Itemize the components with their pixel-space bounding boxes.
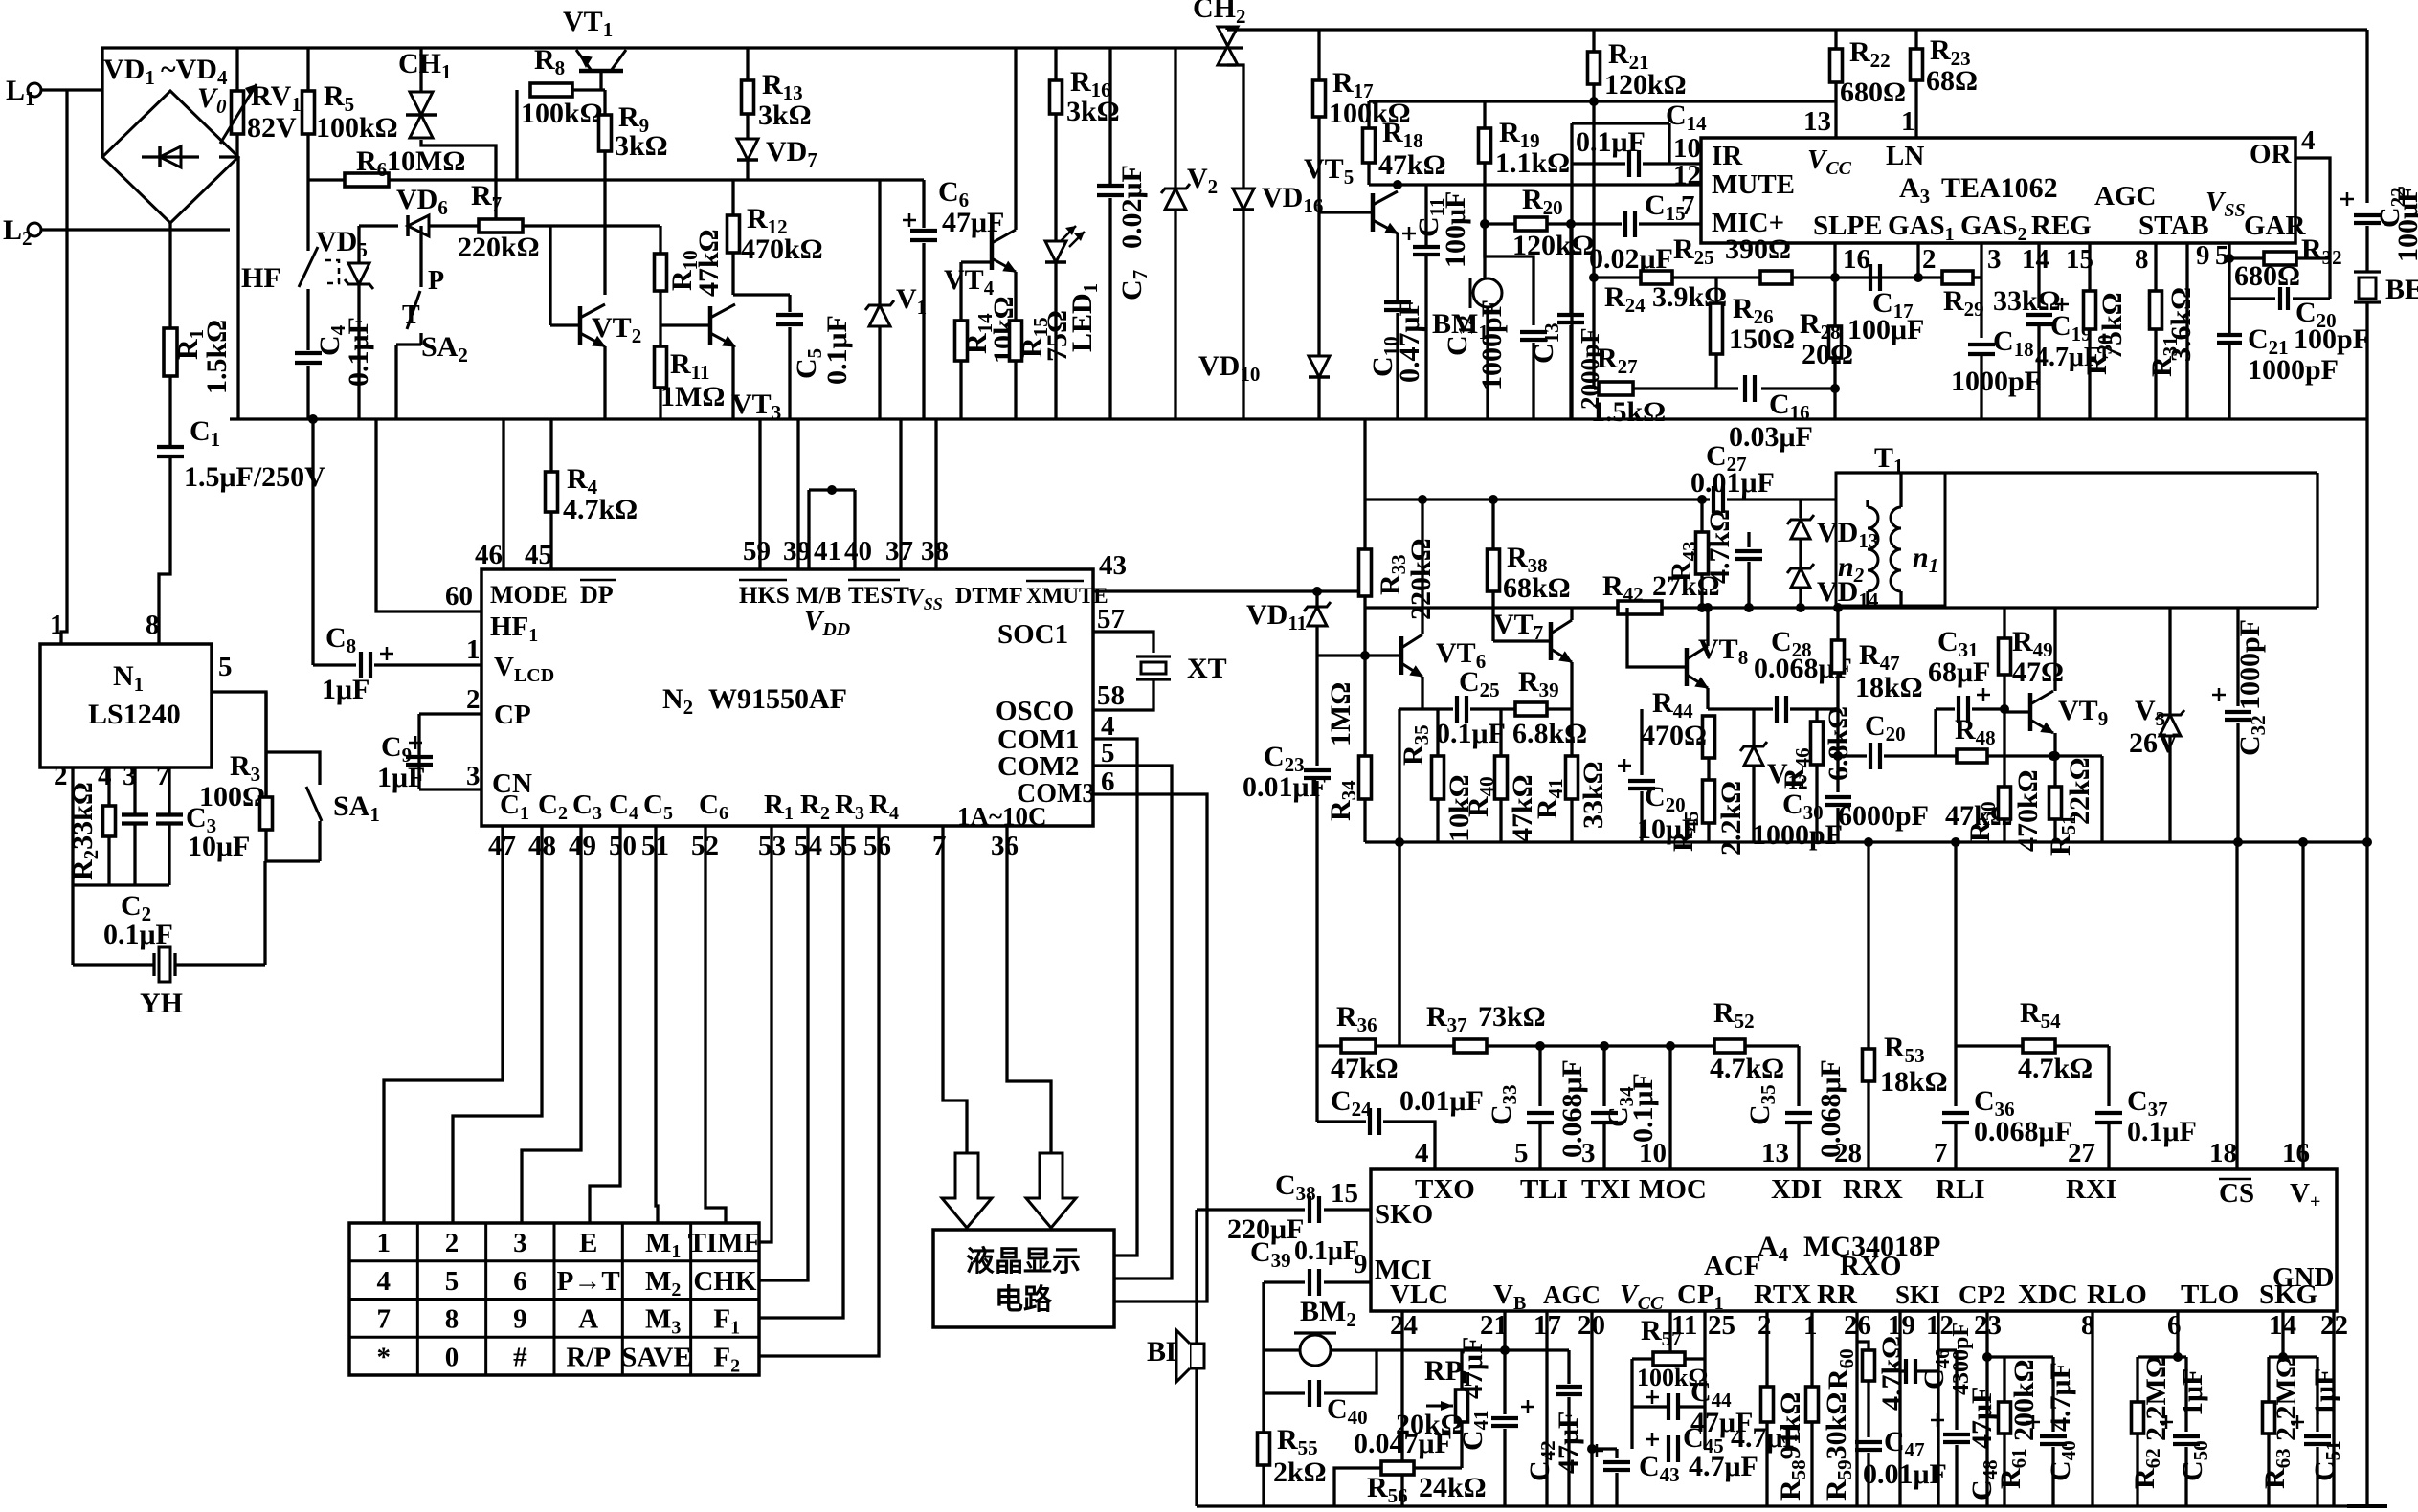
svg-text:4.7kΩ: 4.7kΩ: [1876, 1336, 1908, 1411]
svg-text:SKO: SKO: [1375, 1199, 1433, 1230]
resistor R43 4.7k: [1697, 495, 1707, 504]
wire COM2 to LCD: [1093, 766, 1172, 1279]
svg-text:MUTE: MUTE: [1712, 169, 1795, 200]
svg-text:T: T: [402, 300, 420, 330]
svg-text:28: 28: [1834, 1138, 1862, 1168]
resistor R47 18k: [1833, 603, 1843, 612]
diode VD7: [737, 139, 758, 160]
svg-text:HF: HF: [241, 262, 281, 294]
svg-text:GAS1: GAS1: [1888, 211, 1955, 245]
svg-text:3kΩ: 3kΩ: [615, 130, 668, 162]
svg-text:RLI: RLI: [1936, 1174, 1985, 1205]
svg-text:9: 9: [513, 1304, 527, 1335]
svg-text:0.01μF: 0.01μF: [1863, 1458, 1947, 1490]
wire pin39 up: [796, 419, 799, 569]
svg-text:CHK: CHK: [693, 1266, 757, 1297]
resistor R18 47k: [1363, 128, 1376, 163]
svg-text:1μF: 1μF: [322, 674, 369, 705]
wire R54 line: [1954, 842, 1957, 1046]
pin5 GAR wire: [2228, 243, 2230, 337]
wire bridge right corner down to mid bus: [236, 157, 239, 419]
wire pin51 to keypad col5: [656, 826, 658, 1223]
svg-text:1.5kΩ: 1.5kΩ: [1591, 396, 1666, 428]
svg-text:16: 16: [1843, 244, 1870, 275]
junction pin2: [1914, 273, 1923, 282]
svg-text:100Ω: 100Ω: [199, 781, 265, 812]
wire 6000pF line: [1838, 754, 1867, 757]
svg-text:47μF: 47μF: [1553, 1412, 1584, 1474]
wire SA1 bypass: [266, 752, 320, 785]
wire C1 to N1 pin8: [159, 456, 170, 644]
wire pin24 down: [1400, 1311, 1403, 1506]
svg-text:GAS2: GAS2: [1960, 211, 2027, 245]
svg-text:57: 57: [1097, 604, 1125, 634]
svg-text:DTMF: DTMF: [955, 584, 1023, 609]
svg-text:0.01μF: 0.01μF: [1690, 467, 1775, 499]
svg-text:TLO: TLO: [2181, 1279, 2239, 1310]
svg-text:73kΩ: 73kΩ: [1478, 1001, 1546, 1033]
wire R33 rail: [1363, 500, 1366, 549]
svg-text:IR: IR: [1712, 141, 1743, 171]
svg-text:MODE: MODE: [490, 581, 568, 609]
resistor R2 33k: [103, 806, 116, 836]
svg-text:68Ω: 68Ω: [1926, 65, 1978, 97]
svg-text:2: 2: [1758, 1310, 1772, 1341]
svg-text:0.1μF: 0.1μF: [103, 919, 173, 950]
resistor R32 680: [2229, 256, 2264, 259]
resistor R50 470k: [2003, 709, 2005, 787]
svg-text:1μF: 1μF: [377, 762, 425, 793]
svg-text:220kΩ: 220kΩ: [458, 232, 540, 263]
wire pin8 down: [2091, 1311, 2093, 1506]
svg-text:0.1μF: 0.1μF: [1294, 1236, 1359, 1266]
wire osc left rail to mid bus: [1363, 419, 1366, 500]
wire MUTE line: [1369, 183, 1701, 186]
svg-text:AGC: AGC: [2094, 181, 2156, 211]
svg-text:100μF: 100μF: [1847, 314, 1924, 345]
wire VT9 collector: [2053, 608, 2056, 691]
svg-text:6: 6: [1101, 767, 1115, 797]
svg-text:REG: REG: [2031, 211, 2092, 241]
capacitor C28 series: [1775, 696, 1779, 723]
svg-text:3: 3: [466, 761, 481, 791]
resistor R29 33k: [1942, 271, 1973, 284]
display arrow 2: [1026, 1153, 1076, 1228]
resistor R62 2.2M: [2136, 1357, 2138, 1402]
receiver YH: [152, 953, 155, 976]
IC A4 MC34018P box: [1371, 1169, 2337, 1311]
resistor R25 390: [1760, 271, 1792, 284]
wire YH right up to SA1: [263, 861, 266, 965]
svg-text:22kΩ: 22kΩ: [2064, 757, 2095, 825]
transistor VT7: [1549, 622, 1554, 660]
wire pin26 down: [1855, 1311, 1858, 1506]
wire HF down to C4: [306, 289, 309, 350]
svg-text:2: 2: [1922, 244, 1937, 275]
LED1: [1045, 241, 1066, 262]
junction pin16: [1830, 273, 1840, 282]
svg-text:200kΩ: 200kΩ: [2008, 1359, 2040, 1441]
capacitor C9 1uF: [406, 755, 433, 759]
svg-text:0.03μF: 0.03μF: [1729, 421, 1813, 453]
wire R36 R37 line: [1317, 1044, 1341, 1047]
resistor R37 73k: [1454, 1039, 1487, 1053]
capacitor C2 0.1uF: [122, 812, 148, 816]
diode VD16: [1233, 189, 1254, 210]
svg-text:0: 0: [445, 1342, 459, 1372]
keypad matrix: [349, 1223, 759, 1375]
svg-text:LS1240: LS1240: [88, 699, 181, 730]
wire top line 106: [1369, 100, 1836, 102]
svg-text:GAR: GAR: [2244, 211, 2307, 241]
terminal L2: [28, 223, 41, 236]
capacitor C51 1uF: [2316, 1357, 2318, 1432]
capacitor C41 47uF pin21: [1503, 1311, 1506, 1414]
svg-text:3: 3: [1987, 244, 2002, 275]
ground symbol: [2347, 1504, 2387, 1508]
svg-text:1.5μF/250V: 1.5μF/250V: [184, 461, 325, 493]
svg-text:5: 5: [445, 1266, 459, 1297]
svg-text:AGC: AGC: [1543, 1280, 1601, 1309]
svg-text:0.47μF: 0.47μF: [1394, 299, 1425, 383]
svg-text:470Ω: 470Ω: [1641, 720, 1707, 751]
capacitor C50 1uF: [2184, 1357, 2187, 1432]
capacitor C30 1000pF: [1836, 756, 1839, 792]
svg-text:7: 7: [1681, 190, 1695, 221]
svg-text:1000pF: 1000pF: [2248, 354, 2339, 386]
svg-text:VLC: VLC: [1390, 1279, 1448, 1310]
capacitor C35 0.068uF: [1797, 1046, 1800, 1106]
wire VT9 emitter R51: [2053, 733, 2056, 787]
svg-text:680Ω: 680Ω: [1840, 77, 1906, 108]
svg-text:3.6kΩ: 3.6kΩ: [2165, 287, 2197, 362]
capacitor C40 0.047uF: [1308, 1380, 1311, 1407]
wire pin22 down: [2332, 1311, 2335, 1506]
svg-text:YH: YH: [140, 988, 183, 1019]
resistor R5 100k: [306, 48, 309, 91]
capacitor C3 10uF: [156, 812, 183, 816]
loop wire to YH: [73, 883, 169, 886]
svg-text:20Ω: 20Ω: [1802, 339, 1853, 370]
svg-text:R233kΩ: R233kΩ: [67, 782, 102, 880]
svg-text:8: 8: [2135, 244, 2149, 275]
svg-text:0.01μF: 0.01μF: [1399, 1085, 1484, 1117]
wire L1 to bridge: [41, 88, 102, 91]
wire pin14 down: [2281, 1311, 2284, 1357]
IC N2 W91550AF box: [481, 569, 1093, 826]
svg-text:680Ω: 680Ω: [2234, 260, 2300, 292]
wire SLPE line: [1594, 276, 1981, 278]
wire VD16 branch: [1227, 65, 1243, 189]
wire L2 to bridge bottom: [41, 228, 230, 231]
wire pin59 up: [758, 419, 761, 569]
capacitor C5 0.1uF: [733, 293, 790, 296]
svg-text:18kΩ: 18kΩ: [1855, 672, 1923, 703]
svg-text:4300pF: 4300pF: [1949, 1323, 1974, 1395]
svg-text:6000pF: 6000pF: [1838, 800, 1929, 832]
svg-text:SAVE: SAVE: [621, 1342, 692, 1372]
svg-text:SKG: SKG: [2259, 1279, 2317, 1310]
capacitor C10 0.47uF: [1384, 300, 1411, 304]
wire pin55 to keypad row3: [759, 826, 843, 1318]
svg-text:XDC: XDC: [2018, 1279, 2078, 1310]
switch SA1: [306, 787, 322, 821]
junction: [308, 414, 318, 424]
resistor R15 75: [1014, 272, 1017, 321]
svg-text:40: 40: [844, 536, 872, 567]
svg-text:5: 5: [218, 652, 233, 682]
resistor R34 1M: [1363, 656, 1366, 756]
wire pin50 to keypad col4: [590, 826, 620, 1223]
wire second vertical: [1398, 1044, 1400, 1047]
switch HF: [299, 247, 318, 287]
wire R9 down to VT2 collector: [603, 151, 606, 295]
resistor R26 150: [1714, 278, 1717, 303]
wire R19 rail: [1483, 101, 1486, 128]
resistor R38 68k: [1489, 495, 1498, 504]
junction: [416, 221, 426, 231]
wire pin23 down: [1985, 1311, 1988, 1506]
capacitor C22 100uF: [2354, 213, 2381, 217]
junction pin21: [1500, 1345, 1510, 1355]
resistor R56 24k: [1381, 1461, 1414, 1475]
wire pin48 to keypad col2: [453, 826, 542, 1223]
wire pin12 down: [1937, 1311, 1939, 1506]
pin15 R30 75k: [2088, 243, 2091, 291]
transistor VT9: [2028, 693, 2033, 731]
svg-text:1.5kΩ: 1.5kΩ: [201, 320, 233, 394]
capacitor C12 1000pF: [1485, 224, 1534, 325]
svg-text:68μF: 68μF: [1928, 656, 1990, 688]
svg-text:0.1μF: 0.1μF: [1627, 1073, 1659, 1143]
svg-text:RR: RR: [1817, 1279, 1858, 1310]
svg-text:1: 1: [376, 1228, 391, 1258]
wire C14 down: [1570, 164, 1573, 419]
wire pin18 CS: [2235, 842, 2238, 1169]
capacitor C46 4300pF: [1900, 1369, 1906, 1372]
svg-text:0.01μF: 0.01μF: [1243, 771, 1327, 803]
svg-text:60: 60: [445, 581, 473, 611]
R57 C44 C45 ladder: [1668, 1311, 1671, 1359]
resistor R1 1.5k: [164, 328, 177, 376]
wire pin54 to keypad row2: [759, 826, 808, 1280]
svg-text:1: 1: [50, 610, 64, 640]
wire pin17 down: [1545, 1311, 1548, 1506]
svg-text:R5930kΩ: R5930kΩ: [1821, 1392, 1856, 1501]
wire pin53 to keypad row1: [759, 826, 772, 1242]
svg-text:CP: CP: [494, 700, 531, 730]
capacitor C13 2000pF: [1566, 219, 1576, 229]
svg-text:R/P: R/P: [566, 1342, 611, 1372]
wire bottom bus: [1197, 1504, 2366, 1507]
svg-text:7: 7: [1934, 1138, 1948, 1168]
svg-text:XMUTE: XMUTE: [1026, 584, 1108, 608]
capacitor C20 6000pF: [1869, 743, 1872, 769]
wire pin38 up: [934, 419, 937, 569]
svg-text:1MΩ: 1MΩ: [1325, 682, 1356, 746]
ringer BE: [2354, 270, 2381, 273]
wire pin7 down: [168, 767, 170, 815]
svg-text:15: 15: [1331, 1178, 1358, 1209]
wire osc mid line: [1365, 606, 2317, 609]
wire VT4 base: [959, 262, 962, 321]
svg-text:50: 50: [609, 831, 637, 861]
transistor VT8: [1685, 648, 1690, 686]
wire pin60 HF1: [376, 419, 481, 611]
resistor R40 47k: [1499, 709, 1502, 756]
svg-text:P: P: [428, 266, 444, 296]
wire right end down: [2100, 756, 2103, 842]
resistor R35 10k: [1436, 709, 1439, 756]
svg-text:4: 4: [1415, 1138, 1429, 1168]
resistor R49 47: [1999, 638, 2011, 675]
wire C4 to mid bus: [306, 366, 309, 419]
svg-text:3: 3: [1581, 1138, 1596, 1168]
wire VT4 collector: [1014, 48, 1017, 230]
svg-text:68kΩ: 68kΩ: [1503, 572, 1571, 604]
svg-text:SKI: SKI: [1895, 1280, 1940, 1309]
capacitor C42 47uF: [1567, 1350, 1570, 1384]
svg-text:59: 59: [743, 536, 771, 567]
svg-text:24kΩ: 24kΩ: [1419, 1472, 1487, 1503]
capacitor C15 0.02uF: [1623, 211, 1627, 237]
svg-text:HKS: HKS: [739, 583, 790, 609]
resistor R42 27k: [1618, 601, 1662, 614]
display arrow 1: [942, 1153, 992, 1228]
IC N1 LS1240 box: [40, 644, 212, 767]
svg-text:1.1kΩ: 1.1kΩ: [1495, 147, 1570, 179]
wire mid bus: [230, 417, 2367, 420]
svg-text:120kΩ: 120kΩ: [1604, 69, 1687, 100]
wire VT5 emitter: [1396, 233, 1399, 300]
capacitor C16 0.03uF: [1743, 375, 1747, 402]
capacitor C7 0.02uF: [1108, 48, 1111, 184]
IC A3 TEA1062 box: [1701, 138, 2295, 243]
zener V3 26V: [2168, 608, 2171, 714]
wire VT3 base: [660, 323, 710, 326]
svg-text:DP: DP: [580, 581, 614, 609]
wire pin4 down: [2328, 258, 2331, 299]
wire VT2 emitter down: [603, 346, 606, 419]
svg-text:RLO: RLO: [2087, 1279, 2147, 1310]
svg-text:1MΩ: 1MΩ: [660, 381, 725, 412]
svg-text:1: 1: [1803, 1310, 1818, 1341]
svg-text:液晶显示: 液晶显示: [966, 1246, 1081, 1278]
resistor R9 3k: [603, 90, 606, 115]
svg-text:4.7kΩ: 4.7kΩ: [2018, 1053, 2093, 1084]
capacitor C27 0.01uF: [1712, 486, 1715, 513]
capacitor C17 100uF: [1869, 264, 1872, 291]
capacitor C37 0.1uF: [2107, 1046, 2110, 1106]
svg-text:75kΩ: 75kΩ: [2096, 292, 2128, 360]
wire VT3 emitter down: [731, 346, 734, 419]
svg-text:OR: OR: [2250, 139, 2293, 169]
resistor R14 10k: [955, 321, 968, 361]
svg-text:47μF: 47μF: [942, 207, 1004, 238]
svg-text:3kΩ: 3kΩ: [758, 100, 812, 131]
capacitor C44 47uF: [1667, 1393, 1670, 1420]
wire R10 R11 node: [659, 291, 661, 346]
wire C8 branch: [311, 419, 314, 665]
wire VT2 base: [550, 323, 580, 326]
wire VT8 collector: [1703, 603, 1713, 612]
resistor R24 3.9k: [1641, 271, 1672, 284]
resistor R39 6.8k: [1515, 702, 1547, 716]
wire VT7 emitter R41: [1570, 662, 1573, 756]
capacitor C33 0.068uF: [1535, 1041, 1545, 1051]
transistor VT6: [1399, 636, 1404, 675]
svg-text:18: 18: [2209, 1138, 2237, 1168]
svg-text:TIME: TIME: [688, 1228, 762, 1258]
wire N2 pin46 up: [502, 419, 504, 569]
wire R20 C15 line: [1485, 222, 1515, 225]
svg-text:0.1μF: 0.1μF: [2127, 1116, 2197, 1147]
R63 C51 pair: [2269, 1355, 2317, 1358]
svg-text:6.8kΩ: 6.8kΩ: [1512, 718, 1587, 749]
resistor R4 4.7k on pin45: [549, 419, 552, 472]
svg-text:10μF: 10μF: [188, 831, 250, 862]
resistor R33 220k: [1359, 549, 1372, 596]
svg-text:4: 4: [376, 1266, 391, 1297]
selector switch SA2 contacts P T: [419, 226, 422, 287]
wire CH1 to R7 line: [421, 140, 496, 226]
R61 C40 pair: [1987, 1355, 2053, 1358]
terminal L1: [28, 83, 41, 97]
VDD bracket pins 41 40: [807, 490, 810, 569]
svg-text:CP2: CP2: [1959, 1280, 2006, 1309]
wire left long vertical to R36 line: [1315, 842, 1318, 1046]
svg-text:25: 25: [1708, 1310, 1735, 1341]
svg-text:SOC1: SOC1: [997, 619, 1068, 650]
svg-text:12: 12: [1673, 160, 1701, 190]
resistor R17 100k: [1313, 80, 1326, 117]
svg-text:100kΩ: 100kΩ: [521, 98, 603, 129]
wire R17 rail: [1317, 30, 1320, 80]
wire VD5 node line: [359, 224, 398, 227]
wire pin37 up: [899, 419, 902, 569]
capacitor C1 1.5uF/250V: [157, 445, 184, 449]
svg-text:7: 7: [376, 1304, 391, 1335]
svg-text:1000pF: 1000pF: [1476, 300, 1508, 390]
wire pin19 down: [1898, 1311, 1901, 1506]
resistor R63 2.2M: [2267, 1357, 2270, 1402]
wire pin2: [419, 712, 481, 715]
wire osc bottom line: [1365, 840, 2238, 843]
svg-text:1: 1: [466, 634, 481, 665]
resistor R44 470: [1703, 716, 1715, 758]
svg-text:0.02μF: 0.02μF: [1116, 165, 1148, 249]
wire pin2 R58 91k: [1765, 1311, 1768, 1387]
LCD display box: [933, 1230, 1114, 1327]
capacitor C20 10uF: [1640, 709, 1643, 775]
svg-text:3: 3: [513, 1228, 527, 1258]
svg-text:100μF: 100μF: [2392, 186, 2418, 262]
svg-text:1μF: 1μF: [2177, 1368, 2208, 1416]
svg-text:82V: 82V: [247, 112, 297, 144]
svg-text:10μF: 10μF: [1637, 813, 1699, 845]
svg-text:RRX: RRX: [1843, 1174, 1903, 1205]
wire VT3 collector to R12: [731, 253, 734, 295]
zener V12: [1752, 709, 1755, 745]
transistor VT2: [578, 306, 583, 345]
wire R8 node: [515, 90, 518, 180]
wire VT6 collector: [1421, 500, 1423, 634]
svg-text:45: 45: [525, 540, 552, 570]
wire pin3 down: [133, 767, 136, 815]
wire top supply bus: [101, 46, 1243, 49]
resistor R13 3k: [746, 48, 749, 80]
capacitor C24 0.01uF: [1315, 1046, 1318, 1122]
